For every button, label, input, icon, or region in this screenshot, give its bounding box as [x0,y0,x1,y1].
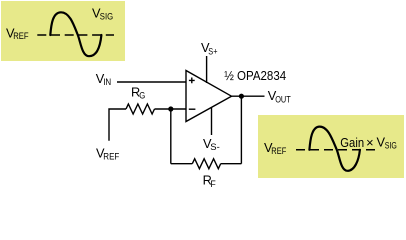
svg-text:G: G [139,91,145,101]
node VIN label [96,71,111,87]
op-amp - input symbol [189,108,196,110]
node VS+ label [201,40,218,57]
node VREF label (input waveform box) [6,26,29,41]
wire feedback bottom left segment [171,163,193,165]
wire VS- supply [211,108,213,136]
wire VREF vertical to RG [109,109,126,141]
wire VREF dashed baseline (input waveform box) [37,34,114,36]
resistor RG label [131,85,145,101]
svg-text:×: × [366,135,373,150]
wire feedback bottom right segment [221,163,242,165]
svg-text:F: F [210,179,216,189]
node VOUT label [268,88,291,105]
node output junction dot [239,94,244,99]
wire VIN to op-amp + input [117,81,186,83]
svg-text:IN: IN [103,77,111,87]
wire VS+ supply [206,56,208,83]
node VREF label (output waveform box) [264,140,287,156]
node amplified sine wave (output waveform) [309,127,360,171]
node VS- label [203,136,220,152]
wire feedback: junction down [170,109,172,164]
node VREF label (lower left) [96,146,120,162]
resistor RG zigzag [126,104,154,114]
wire feedback up to output node [240,96,242,164]
node VSIG sine wave (input waveform) [50,12,101,56]
label Gain x VSIG (output waveform box) [340,134,397,150]
wire op-amp output to VOUT [230,95,265,97]
svg-text:REF: REF [13,31,29,41]
resistor RF label [203,172,217,188]
wire VREF dashed baseline (output waveform box) [296,149,375,151]
node junction dot at inverting input [168,106,173,111]
svg-text:REF: REF [271,146,287,156]
svg-text:SIG: SIG [100,11,113,21]
svg-text:S+: S+ [208,47,217,57]
input waveform callout box [1,1,125,61]
svg-text:S-: S- [210,142,220,152]
op-amp + input symbol [189,78,195,84]
svg-text:OUT: OUT [275,95,291,105]
svg-text:½ OPA2834: ½ OPA2834 [224,68,286,83]
wire RG to inverting input [155,108,187,110]
svg-text:REF: REF [103,152,120,162]
resistor RF zigzag [192,159,220,169]
op-amp U1 half OPA2834 triangle [186,71,232,122]
node VSIG label (input waveform box) [92,6,113,22]
output waveform callout box [258,115,404,178]
svg-text:Gain: Gain [340,135,364,150]
svg-text:SIG: SIG [385,140,397,150]
